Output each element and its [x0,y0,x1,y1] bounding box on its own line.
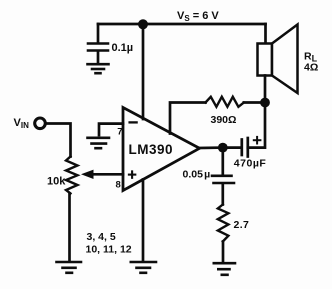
svg-text:VS = 6 V: VS = 6 V [177,10,219,23]
svg-text:LM390: LM390 [129,142,174,157]
svg-text:10, 11, 12: 10, 11, 12 [86,244,132,256]
wire speaker bottom to junction [264,76,267,103]
wire pin 7 inverting input [99,124,123,135]
ground (pot) [57,262,82,273]
wire op-amp output [200,146,223,149]
svg-text:3, 4, 5: 3, 4, 5 [87,231,116,243]
plus sign 470uF polarity [254,139,261,141]
wire 0.05u to 2.7 [221,184,224,205]
op-amp U1 LM390 triangle [123,108,200,191]
potentiometer R 10k [66,157,78,194]
capacitor C 470uF [242,138,248,157]
resistor R 2.7 [218,205,229,242]
ground (2.7 resistor) [214,263,235,275]
svg-text:0.1µ: 0.1µ [112,42,134,54]
ground (op-amp pins) [131,262,156,273]
resistor R 390 ohm [206,97,244,107]
svg-text:0.05µ: 0.05µ [183,169,211,181]
wire pot to ground [68,194,71,262]
op-amp minus sign pin 7 [130,121,137,123]
wire pin 8 with wiper arrow to pot [91,173,123,176]
node speaker/feedback junction [260,98,270,108]
wire feedback from op-amp up [170,103,206,134]
speaker LS cone [272,25,298,94]
svg-text:VIN: VIN [14,117,30,130]
ground (0.1u cap) [88,64,109,73]
op-amp plus sign pin 8 [129,174,135,176]
svg-text:4Ω: 4Ω [304,62,318,74]
wire supply down to op-amp V+ [142,24,145,119]
wire rail down to speaker top [264,24,267,44]
wire 390 to junction [244,101,265,104]
node supply junction [138,19,148,29]
wire VIN to pot [46,124,71,157]
capacitor C 0.1u [88,44,108,51]
svg-text:390Ω: 390Ω [211,114,237,126]
wire C 0.1u to ground [97,52,100,64]
svg-text:470µF: 470µF [234,158,267,170]
wire output to 470uF [223,146,241,149]
speaker LS driver rectangle [258,44,273,76]
wire output down to 0.05u [221,148,224,175]
svg-text:2.7: 2.7 [234,219,250,231]
terminal VIN [35,118,46,129]
wire top supply rail [98,23,266,26]
capacitor C 0.05u [212,176,234,183]
svg-text:8: 8 [116,179,121,190]
ground (pin 7) [88,138,110,148]
wire op-amp ground pins down [142,180,145,262]
wire 470uF to speaker junction [248,103,265,148]
capacitor C 0.1u stub [97,24,100,43]
wire 2.7 to ground [222,242,225,263]
svg-text:10k: 10k [47,176,66,188]
node output junction [218,143,228,153]
svg-text:7: 7 [117,126,122,137]
